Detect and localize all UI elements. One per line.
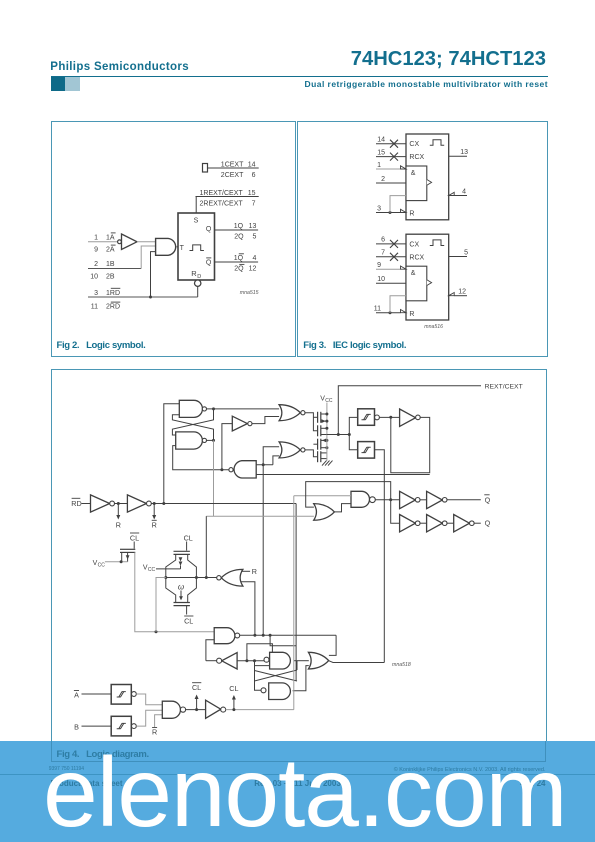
pin 14 CX input [376, 143, 406, 145]
wire NAND D upper input (CL) [294, 495, 351, 497]
wire pass gate node row [166, 577, 217, 579]
svg-text:9: 9 [94, 247, 98, 254]
wire drain node to schmitt triggers [327, 434, 349, 436]
wire OR M lower input [206, 515, 314, 517]
pin 7 RCX input [376, 256, 406, 258]
pulse symbol inside block [190, 245, 204, 251]
wire R gate lower input [241, 582, 255, 636]
footer small line [49, 766, 84, 772]
node CL tap [233, 698, 235, 710]
svg-text:S: S [194, 217, 199, 224]
wire RD line down to latch2 [295, 504, 297, 682]
wire S1 output [379, 416, 400, 418]
Fig 2 logic symbol drawing [88, 161, 259, 310]
svg-text:RCX: RCX [409, 254, 424, 261]
wire latch1 cross coupling [172, 409, 213, 435]
output Q wires [215, 229, 259, 231]
footer rule [0, 774, 595, 775]
inverter Q2bar [420, 499, 427, 501]
svg-text:2CEXT: 2CEXT [221, 172, 244, 179]
svg-text:5: 5 [464, 249, 468, 256]
svg-text:1: 1 [377, 162, 381, 169]
footer band overlay [0, 741, 595, 842]
svg-text:2A: 2A [106, 247, 115, 254]
svg-text:4: 4 [252, 255, 256, 262]
wire inverter L output to NAND E [206, 660, 217, 662]
wire B to NAND H [136, 710, 162, 726]
output polarity triangle of AND block [427, 180, 432, 186]
pin 5 Q output [449, 256, 467, 258]
svg-text:A: A [74, 691, 79, 700]
node REXT/CEXT [338, 386, 481, 435]
wire REXT/CEXT line [196, 196, 259, 198]
wire Q feedback to OR M [306, 482, 391, 508]
wire node jog over NAND F [247, 644, 273, 661]
wire OR latch2 output [329, 661, 385, 663]
header rule [51, 76, 549, 77]
transistor N1 [317, 439, 319, 450]
NAND gate D [351, 491, 370, 507]
schmitt trigger B [111, 716, 131, 736]
output Qbar wires [215, 261, 259, 263]
svg-text:12: 12 [249, 265, 257, 272]
reset bubble under block [195, 280, 201, 286]
inverter RD1 [91, 495, 110, 512]
ground [322, 461, 333, 466]
wire NAND E output [240, 634, 336, 636]
wire CL up to NAND D [293, 496, 295, 710]
pass gate top pair [186, 542, 188, 551]
transistor N2 [317, 451, 319, 462]
svg-text:mna515: mna515 [240, 290, 259, 296]
wire NAND C output vertical to NAND E [262, 465, 264, 636]
svg-text:CL: CL [130, 533, 139, 542]
pin 13 Q output [449, 155, 467, 157]
wire CL node [226, 709, 294, 711]
NAND gate H [162, 701, 180, 718]
footer product line [51, 779, 123, 788]
node R tap [117, 504, 119, 518]
svg-text:2Q: 2Q [234, 265, 244, 272]
inverter J [232, 416, 247, 431]
AND gate [156, 238, 176, 255]
NAND gate F [270, 652, 291, 669]
svg-text:1REXT/CEXT: 1REXT/CEXT [200, 190, 244, 197]
svg-text:9: 9 [377, 262, 381, 269]
NOR gate 2 [279, 442, 300, 458]
fig4 box lines showing through band [51, 741, 52, 762]
svg-text:&: & [411, 170, 416, 177]
wire latch1 top output [207, 408, 280, 410]
wire NAND E output to latch2 OR [329, 635, 336, 655]
Fig 4 box [51, 369, 547, 763]
svg-text:RD: RD [71, 499, 81, 508]
wire CEXT line [208, 167, 259, 169]
wire latch1 bottom input [173, 446, 229, 470]
svg-text:2REXT/CEXT: 2REXT/CEXT [200, 200, 244, 207]
svg-text:R: R [152, 521, 157, 530]
inverter K [400, 409, 416, 426]
node Rbar input to NAND H [155, 715, 163, 727]
svg-text:3: 3 [94, 290, 98, 297]
svg-text:R: R [252, 567, 257, 576]
inverter Q3 [447, 522, 454, 524]
svg-text:mna516: mna516 [424, 324, 443, 330]
svg-text:R: R [409, 211, 414, 218]
transistor P1 [317, 412, 319, 423]
header dark square [51, 77, 65, 91]
NOR gate 1 [279, 405, 300, 421]
inverter CL [206, 700, 221, 718]
svg-text:6: 6 [381, 237, 385, 244]
svg-text:CL: CL [184, 533, 193, 542]
wire NAND C upper input [256, 464, 273, 466]
svg-text:13: 13 [249, 223, 257, 230]
svg-text:2: 2 [381, 176, 385, 183]
svg-text:1RD: 1RD [106, 290, 120, 297]
pass gate bottom pair [174, 602, 190, 604]
svg-text:2Q: 2Q [234, 233, 244, 240]
wire NAND B output to NOR2 inputs via mirrored NAND C line [213, 440, 215, 516]
svg-text:1Q: 1Q [234, 223, 244, 230]
IEC monostable block 2 [374, 234, 468, 320]
pin 1 A input [376, 168, 401, 170]
wire NAND C lower input [256, 474, 430, 476]
svg-text:7: 7 [252, 200, 256, 207]
svg-text:11: 11 [91, 304, 98, 311]
svg-text:13: 13 [460, 149, 468, 156]
wire NAND E lower input [206, 640, 214, 661]
svg-text:14: 14 [248, 161, 256, 168]
schmitt trigger S1 [358, 409, 375, 426]
svg-text:1: 1 [94, 234, 98, 241]
svg-text:T: T [180, 245, 185, 252]
svg-text:mna518: mna518 [392, 662, 411, 668]
wire inverter J input [222, 424, 232, 470]
header: Philips Semiconductors [50, 61, 189, 73]
svg-text:CL: CL [192, 683, 201, 692]
NOR gate R (left pointing) [221, 569, 243, 586]
Fig 2 box [51, 121, 296, 358]
svg-text:R: R [116, 521, 121, 530]
wire REXT to block [195, 197, 197, 214]
OR gate latch2 [308, 652, 328, 669]
svg-text:11: 11 [374, 306, 381, 313]
wire NAND H output [186, 709, 206, 711]
svg-text:12: 12 [458, 289, 466, 296]
inverter RD2 [115, 503, 128, 505]
svg-text:15: 15 [248, 190, 256, 197]
wire NAND G output to OR [293, 666, 309, 691]
svg-text:REXT/CEXT: REXT/CEXT [485, 383, 523, 390]
wire latch1 top input from R line [164, 404, 180, 504]
wire latch2 cross coupling [255, 661, 298, 681]
svg-text:1CEXT: 1CEXT [221, 161, 244, 168]
svg-text:5: 5 [252, 233, 256, 240]
svg-text:14: 14 [377, 137, 385, 144]
IEC monostable block 1 [376, 134, 468, 220]
pin 4 Qbar output [449, 192, 455, 195]
node CLbar tap [196, 697, 198, 710]
pin 3 R input [376, 212, 401, 214]
wire CL transistor to NAND E [135, 552, 214, 631]
NAND gate E [214, 628, 235, 644]
svg-text:R: R [152, 727, 157, 736]
monostable block [178, 213, 215, 280]
wire OR M output to NAND D [334, 504, 351, 512]
svg-text:15: 15 [377, 149, 385, 156]
header light square [65, 77, 80, 91]
svg-text:CC: CC [148, 567, 156, 573]
NAND gate G [269, 683, 291, 700]
input RD wires [88, 296, 198, 298]
wire inverter L input node [237, 660, 264, 662]
svg-text:10: 10 [377, 276, 385, 283]
wire inverter J output to NOR1 [252, 417, 279, 424]
inverter triangle A [122, 234, 138, 250]
OR gate M [314, 504, 335, 521]
svg-text:CL: CL [184, 616, 193, 625]
svg-text:CC: CC [98, 563, 106, 569]
wire Q node [375, 499, 399, 501]
node Q output [474, 522, 481, 524]
pin 2 B input [376, 182, 406, 184]
svg-text:10: 10 [90, 273, 98, 280]
NAND gate C (left pointing) [234, 461, 256, 478]
wire to Q inverters [391, 500, 400, 524]
svg-text:Q: Q [206, 260, 212, 267]
output polarity triangle of AND block [427, 280, 432, 286]
svg-text:B: B [74, 722, 79, 731]
svg-text:R: R [409, 311, 414, 318]
pin 9 A input [376, 268, 401, 270]
svg-text:&: & [411, 270, 416, 277]
inverter Q2 [420, 522, 427, 524]
Fig 4 logic diagram drawing [71, 383, 522, 736]
pin 6 CX input [376, 243, 406, 245]
input A wires [88, 241, 118, 243]
pin 12 Qbar output [449, 293, 455, 296]
wire S2 output down to latch2 OR [375, 450, 385, 663]
wire inverter K feedback loop [391, 417, 430, 473]
svg-text:Q: Q [485, 519, 491, 528]
wire NAND F output [294, 660, 309, 662]
svg-text:CX: CX [409, 241, 419, 248]
schmitt trigger S2 [358, 442, 375, 459]
wire branch to latch2 area [270, 635, 296, 645]
svg-text:RCX: RCX [409, 154, 424, 161]
svg-text:CL: CL [229, 684, 238, 693]
svg-text:ω: ω [178, 583, 184, 592]
node Qbar output [447, 499, 481, 501]
svg-text:Q: Q [485, 495, 491, 504]
svg-text:6: 6 [252, 172, 256, 179]
NAND gate latch1 bottom [176, 432, 203, 449]
wire A to NAND H [136, 694, 162, 705]
node R input label [241, 570, 250, 572]
svg-text:4: 4 [462, 188, 466, 195]
svg-text:3: 3 [377, 205, 381, 212]
node Rbar tap [153, 502, 156, 505]
inverter bubble on A input [118, 240, 122, 244]
inverter Q1 [400, 515, 416, 532]
svg-text:2B: 2B [106, 273, 115, 280]
inverter Q1bar [400, 491, 416, 508]
capacitor CEXT plate symbol [203, 164, 208, 173]
pin 11 R input [376, 312, 401, 314]
schmitt trigger A [111, 685, 131, 705]
svg-text:Q: Q [206, 226, 212, 233]
svg-text:1B: 1B [106, 261, 115, 268]
wire gate bracket P [305, 413, 318, 431]
wire node row to NAND E input [156, 578, 166, 632]
svg-text:CX: CX [409, 141, 419, 148]
transistor CL single [133, 542, 135, 549]
elenota.com watermark [43, 736, 566, 842]
header subtitle [305, 79, 548, 89]
NAND gate latch1 top [179, 400, 202, 417]
inverter L (left pointing) [222, 653, 237, 669]
wire gate bracket N [305, 450, 318, 457]
svg-text:1A: 1A [106, 234, 115, 241]
svg-text:7: 7 [381, 250, 385, 257]
Fig 3 box [297, 121, 548, 358]
svg-text:D: D [197, 274, 201, 280]
input B wires [88, 268, 141, 270]
header: part title [351, 48, 546, 71]
transistor P2 [317, 425, 319, 436]
wire transistor source chain [326, 435, 328, 461]
fig4 caption on band [57, 749, 149, 760]
pin 10 B input [376, 282, 406, 284]
svg-text:2RD: 2RD [106, 304, 120, 311]
svg-text:2: 2 [94, 261, 98, 268]
wire RD buffered line [151, 503, 296, 505]
svg-text:1Q: 1Q [234, 255, 244, 262]
pin 15 RCX input [376, 156, 406, 158]
